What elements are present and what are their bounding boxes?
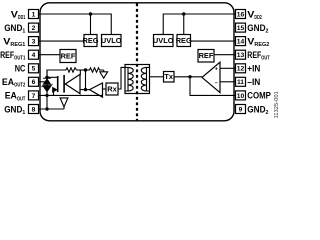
wire amp2 out to amp1: [80, 89, 90, 91]
undervoltage lockout UVLO (side 2): [153, 35, 174, 47]
svg-text:REF: REF: [199, 51, 214, 60]
op-amp A2 (gain stage, points left): [90, 83, 103, 97]
svg-text:EA: EA: [5, 91, 18, 101]
capacitor bar 1: [57, 76, 59, 92]
wire VDD1 rail: [39, 14, 112, 35]
pin 5 box: [29, 64, 39, 73]
wire COMP: [190, 77, 236, 96]
resistor R2: [90, 68, 104, 72]
pin 14 box: [236, 37, 246, 46]
svg-text:–IN: –IN: [247, 77, 260, 87]
svg-text:OUT1: OUT1: [14, 56, 26, 62]
wire rail stub to cap bar1: [47, 76, 57, 78]
node pin8 on rail: [45, 107, 48, 110]
node COMP junction: [188, 75, 191, 78]
node EAOUT2 rail top: [45, 76, 48, 79]
pin 6 box: [29, 77, 39, 86]
svg-text:9: 9: [239, 106, 243, 113]
transformer box: [125, 65, 150, 94]
svg-text:Tx: Tx: [164, 72, 174, 81]
svg-text:GND: GND: [247, 23, 266, 33]
op-amp A1 (output buffer, points left): [65, 74, 80, 93]
svg-text:UVLO: UVLO: [153, 36, 174, 45]
svg-text:5: 5: [32, 66, 36, 73]
transmitter Tx: [164, 72, 175, 83]
svg-text:GND: GND: [4, 23, 23, 33]
wire divider rail top (y70): [47, 70, 66, 77]
svg-text:11: 11: [237, 79, 244, 86]
wire REFOUT1 pin4 to REF: [39, 54, 61, 56]
wire +IN pin12: [220, 67, 236, 69]
node VDD2-REG junction: [182, 12, 185, 15]
wire R1 to node: [78, 69, 90, 71]
node pin7 on rail: [45, 94, 48, 97]
svg-text:7: 7: [32, 93, 36, 100]
pin 9 box: [236, 105, 246, 114]
wire transformer to Tx: [150, 76, 164, 78]
undervoltage lockout UVLO (side 1): [101, 35, 122, 47]
wire REFOUT pin13 to REF: [214, 54, 236, 56]
svg-text:REG: REG: [82, 36, 98, 45]
svg-text:–: –: [215, 80, 218, 86]
svg-text:REG: REG: [176, 36, 192, 45]
pin 16 box: [236, 10, 246, 19]
svg-text:2: 2: [32, 25, 36, 32]
svg-text:10: 10: [237, 93, 245, 100]
wire Rx to transformer: [118, 67, 128, 89]
zener D2 (clamp): [42, 84, 53, 87]
pin 8 box: [29, 105, 39, 114]
svg-text:+IN: +IN: [247, 64, 260, 74]
wire clamp rail: [46, 70, 48, 109]
pin 4 box: [29, 50, 39, 59]
transformer primary winding: [125, 67, 133, 91]
pin 13 box: [236, 50, 246, 59]
wire -IN pin11: [220, 81, 236, 83]
IC body outline U1: [40, 3, 234, 121]
wire EAOUT2 pin6: [39, 81, 48, 83]
svg-text:REG2: REG2: [254, 42, 270, 48]
wire divider mid down: [85, 70, 87, 90]
pin 11 box: [236, 77, 246, 86]
svg-text:16: 16: [237, 11, 245, 18]
diode D1 (clamp): [43, 78, 51, 84]
pin 10 box: [236, 91, 246, 100]
ground (open triangle, pin8): [60, 98, 68, 109]
svg-text:NC: NC: [15, 64, 26, 74]
wire Tx to error amp output: [174, 76, 202, 78]
wire Rx to amp2: [103, 88, 107, 90]
svg-text:DD2: DD2: [254, 15, 262, 21]
wire GND1 pin8: [39, 108, 65, 110]
node divider mid: [84, 68, 87, 71]
error amplifier (points left): [202, 62, 220, 92]
svg-text:OUT2: OUT2: [14, 83, 26, 89]
reference REF (side 2): [198, 50, 214, 63]
resistor R1: [66, 68, 78, 72]
pin 3 box: [29, 37, 39, 46]
wire amp1 top input stub: [79, 70, 81, 75]
svg-text:GND: GND: [247, 104, 266, 114]
svg-text:3: 3: [32, 39, 36, 46]
svg-text:REF: REF: [61, 51, 76, 60]
svg-text:4: 4: [32, 52, 36, 59]
isolation barrier (dashed): [136, 3, 138, 120]
node amp2 output junction: [84, 88, 87, 91]
pin 1 box: [29, 10, 39, 19]
svg-text:12: 12: [237, 66, 245, 73]
node pin6 on rail: [45, 80, 48, 83]
svg-text:REF: REF: [247, 50, 261, 60]
svg-text:Rx: Rx: [107, 84, 117, 93]
svg-text:OUT: OUT: [17, 96, 26, 102]
svg-text:6: 6: [32, 79, 36, 86]
regulator REG (side 1): [82, 35, 98, 47]
svg-text:COMP: COMP: [247, 91, 271, 101]
reference REF (side 1): [60, 50, 76, 63]
wire REG2 feed: [183, 14, 185, 35]
receiver Rx: [106, 83, 118, 95]
ground (open triangle, divider): [100, 70, 108, 78]
pin 15 box: [236, 23, 246, 32]
svg-text:15: 15: [237, 25, 245, 32]
svg-text:DD1: DD1: [18, 15, 26, 21]
pin 7 box: [29, 91, 39, 100]
svg-text:8: 8: [32, 106, 36, 113]
wire EAOUT feedback stub: [54, 90, 57, 96]
svg-text:GND: GND: [4, 104, 23, 114]
wire EAOUT pin7: [39, 94, 103, 96]
node VDD1-REG junction: [89, 12, 92, 15]
svg-text:11325-001: 11325-001: [274, 91, 280, 118]
wire VREG1 pin3 to REG: [39, 40, 85, 42]
svg-text:14: 14: [237, 39, 245, 46]
svg-text:REG1: REG1: [10, 42, 26, 48]
regulator REG (side 2): [176, 35, 192, 47]
pin 2 box: [29, 23, 39, 32]
svg-text:13: 13: [237, 52, 245, 59]
wire VREG2 pin14 to REG: [191, 40, 236, 42]
transformer secondary winding: [141, 67, 149, 91]
svg-text:REF: REF: [0, 50, 14, 60]
wire VDD2 rail: [163, 14, 235, 35]
diode D3 arrow into cap: [53, 87, 57, 92]
svg-text:UVLO: UVLO: [101, 36, 122, 45]
svg-text:EA: EA: [2, 77, 15, 87]
svg-text:OUT: OUT: [261, 56, 270, 62]
pin 12 box: [236, 64, 246, 73]
capacitor bar 2: [63, 75, 65, 93]
wire REG1 feed: [90, 14, 92, 35]
svg-text:1: 1: [32, 11, 36, 18]
